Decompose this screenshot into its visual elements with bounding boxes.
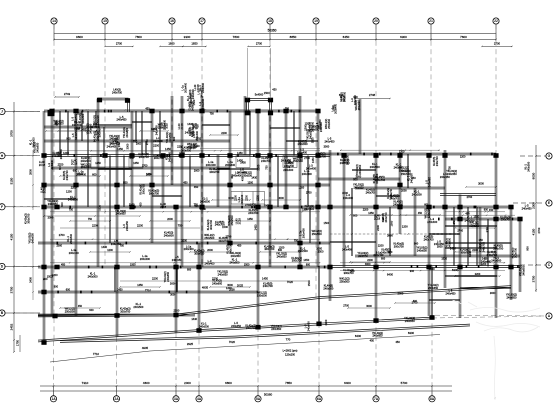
row dim line y=150.8 <box>60 150 320 152</box>
svg-text:3000: 3000 <box>264 203 270 207</box>
svg-text:6450: 6450 <box>343 35 350 39</box>
beam x=98 <box>97 111 99 267</box>
svg-text:240x600: 240x600 <box>304 207 315 211</box>
dim cell 1450 a <box>91 156 105 168</box>
svg-text:3700: 3700 <box>9 286 13 293</box>
annotation text cluster 29 <box>370 331 401 344</box>
beam y=292 <box>38 291 258 293</box>
svg-text:750: 750 <box>264 165 268 170</box>
svg-text:1200: 1200 <box>226 286 232 290</box>
beam x=460 <box>459 195 461 319</box>
beam x=511 <box>510 207 512 300</box>
svg-text:3700: 3700 <box>9 130 13 137</box>
svg-text:1500: 1500 <box>324 221 330 225</box>
partition beam y=122 <box>132 121 152 122</box>
beam y=219 <box>445 218 520 220</box>
annotation text cluster 32 <box>111 239 205 261</box>
svg-text:450: 450 <box>194 185 199 189</box>
dim cell 1450 c <box>236 156 250 168</box>
svg-text:2200: 2200 <box>177 144 183 148</box>
top sub-dim 2700 <box>482 45 512 47</box>
svg-text:600: 600 <box>194 204 199 208</box>
annotation text cluster 9 <box>138 152 171 177</box>
slanted dim line <box>50 351 150 362</box>
svg-text:750: 750 <box>210 112 215 115</box>
inner dim y=252 <box>190 251 230 253</box>
svg-text:1200: 1200 <box>247 181 253 184</box>
axis 17 tick line <box>201 24 203 41</box>
svg-text:2000: 2000 <box>207 249 213 252</box>
svg-text:450: 450 <box>395 340 400 344</box>
svg-text:300x700: 300x700 <box>292 259 303 263</box>
annotation text cluster 25 <box>65 302 180 313</box>
grid bubble bottom 5A <box>255 396 261 402</box>
svg-text:2000: 2000 <box>532 202 536 209</box>
beam x=480 <box>479 207 481 266</box>
svg-text:7800: 7800 <box>233 35 240 39</box>
beam x=415 <box>414 188 416 256</box>
partition beam x=294 <box>293 111 294 156</box>
svg-text:600: 600 <box>350 269 355 273</box>
svg-text:3000: 3000 <box>387 233 393 237</box>
dim tick <box>104 39 106 41</box>
beam x=163 <box>162 155 164 207</box>
grid line x=54 dashed <box>53 24 55 340</box>
svg-text:600: 600 <box>58 165 62 170</box>
svg-text:2000: 2000 <box>398 292 404 296</box>
svg-text:250x500: 250x500 <box>399 168 410 172</box>
svg-text:240x500: 240x500 <box>199 324 210 328</box>
svg-text:3000: 3000 <box>278 197 284 200</box>
svg-text:6800: 6800 <box>225 381 232 385</box>
svg-text:3000: 3000 <box>74 126 80 130</box>
dim tick <box>198 385 200 387</box>
grid bubble left F <box>0 204 5 210</box>
partition beam x=308 <box>307 156 308 208</box>
inner dim y=135 <box>210 134 238 136</box>
svg-text:2700: 2700 <box>245 203 251 207</box>
svg-text:6400: 6400 <box>387 273 394 277</box>
partition beam x=488 <box>487 219 488 267</box>
beam x=52 <box>51 111 53 316</box>
grid line x=105 dashed <box>104 24 106 266</box>
svg-text:200x400: 200x400 <box>76 173 87 177</box>
dense annotation cluster 6 <box>117 125 163 148</box>
svg-text:1500: 1500 <box>98 204 102 210</box>
svg-text:5700: 5700 <box>401 381 408 385</box>
svg-text:240x400: 240x400 <box>427 220 438 224</box>
grid bubble axis 20 top <box>373 18 379 24</box>
svg-text:240x650: 240x650 <box>354 186 365 190</box>
beam y=111 <box>44 110 318 112</box>
svg-text:240x500: 240x500 <box>69 233 73 244</box>
svg-text:240x650: 240x650 <box>277 254 288 258</box>
svg-text:240x700: 240x700 <box>487 253 498 257</box>
grid bubble left J <box>0 108 5 114</box>
svg-text:2000: 2000 <box>56 244 62 247</box>
grid bubble left H <box>0 153 5 159</box>
svg-text:3000: 3000 <box>146 173 152 177</box>
svg-text:750: 750 <box>133 139 138 143</box>
inner dim y=252 <box>260 251 300 253</box>
svg-text:2A: 2A <box>114 397 119 401</box>
svg-text:240x500: 240x500 <box>298 249 309 253</box>
svg-text:6400: 6400 <box>344 381 351 385</box>
svg-text:240x600: 240x600 <box>164 234 175 238</box>
svg-text:20: 20 <box>374 19 378 23</box>
grid bubble axis 21 top <box>428 18 434 24</box>
svg-text:6300: 6300 <box>408 331 415 335</box>
slant beam lower dashed ext <box>432 316 543 318</box>
svg-text:900: 900 <box>526 246 530 251</box>
svg-text:240x500: 240x500 <box>200 199 211 203</box>
svg-text:240x500: 240x500 <box>229 260 240 264</box>
svg-text:900: 900 <box>410 269 415 273</box>
left inner dim a <box>32 150 34 210</box>
dim tick <box>13 111 15 113</box>
svg-text:240x400: 240x400 <box>283 168 294 172</box>
svg-text:240x400: 240x400 <box>205 262 216 266</box>
svg-text:2700: 2700 <box>256 42 263 46</box>
partition beam x=68 <box>67 111 68 156</box>
axis 18 tick line <box>269 24 271 41</box>
svg-text:2000: 2000 <box>194 169 200 172</box>
svg-text:300x700: 300x700 <box>501 218 512 222</box>
grid bubble axis 16 top <box>169 18 175 24</box>
svg-text:750: 750 <box>447 166 451 171</box>
inner dim y=176 <box>60 175 100 177</box>
bottom tick line <box>175 386 177 396</box>
dim tick <box>431 385 433 387</box>
svg-text:240x450: 240x450 <box>342 248 353 252</box>
svg-text:2400: 2400 <box>29 277 33 283</box>
inner dim y=176 <box>130 175 168 177</box>
dim tick <box>13 312 15 314</box>
axis 20 tick line <box>375 24 377 41</box>
svg-text:240x450: 240x450 <box>231 324 242 328</box>
svg-text:5x4000: 5x4000 <box>255 92 264 96</box>
partition beam x=310 <box>309 207 310 243</box>
beam y=185 <box>44 184 330 186</box>
svg-text:2C18: 2C18 <box>238 218 242 225</box>
svg-text:3A: 3A <box>174 397 179 401</box>
dim tick <box>375 39 377 41</box>
svg-text:900: 900 <box>353 95 358 99</box>
left grid ext y=111.5 <box>16 111 40 113</box>
svg-text:200x400: 200x400 <box>163 119 167 130</box>
svg-text:3000: 3000 <box>490 291 496 295</box>
internal dim row y151 <box>90 150 200 152</box>
svg-text:4905: 4905 <box>202 286 209 290</box>
inner dim y=303 <box>395 302 435 304</box>
partition beam y=125 <box>202 124 230 125</box>
tab x247 columns <box>245 98 250 103</box>
svg-text:450: 450 <box>183 181 188 184</box>
annotation text cluster 21 <box>69 244 324 266</box>
svg-text:240x650: 240x650 <box>271 327 282 331</box>
svg-text:240x400: 240x400 <box>306 167 317 171</box>
partition beam x=177 <box>176 267 177 292</box>
svg-text:240x500: 240x500 <box>133 305 144 309</box>
axis 16 tick line <box>171 24 173 41</box>
dim 2743 <box>55 96 79 98</box>
svg-text:3000: 3000 <box>342 191 348 195</box>
partition beam x=278 <box>277 156 278 208</box>
annotation text cluster 8 <box>39 149 97 177</box>
svg-text:18: 18 <box>268 19 272 23</box>
partition beam x=60 <box>59 111 60 156</box>
svg-text:250x500: 250x500 <box>327 118 331 129</box>
inner dim y=252 <box>90 251 130 253</box>
svg-text:9600: 9600 <box>76 35 83 39</box>
svg-text:1200: 1200 <box>460 155 466 158</box>
partition beam x=82 <box>81 111 82 141</box>
svg-text:1500: 1500 <box>474 215 480 218</box>
row dim line y=239.2 <box>50 238 320 240</box>
watermark faint curves <box>452 300 540 400</box>
partition beam x=390 <box>389 207 390 256</box>
inner dim y=221 <box>230 220 270 222</box>
svg-text:240x450: 240x450 <box>111 242 122 246</box>
svg-text:3000: 3000 <box>228 197 234 200</box>
internal dim row y148 <box>200 148 320 150</box>
svg-text:200x400: 200x400 <box>240 194 244 205</box>
beam x=152 <box>151 111 153 243</box>
svg-text:240x650: 240x650 <box>110 137 121 141</box>
tab top x98 <box>97 99 99 112</box>
dim cell 1450 d <box>283 156 297 168</box>
svg-text:200x400: 200x400 <box>206 163 217 167</box>
beam x=286 <box>285 111 287 207</box>
grid line x=316 dashed <box>315 24 317 301</box>
svg-text:240x700: 240x700 <box>435 156 439 167</box>
partition beam y=169 <box>98 168 132 169</box>
dim cell 1450 b <box>129 156 143 168</box>
svg-text:3000: 3000 <box>170 293 176 296</box>
top sub-dim 1650 <box>183 45 206 47</box>
grid bubble axis 22 top <box>493 18 499 24</box>
svg-text:240x650: 240x650 <box>405 319 416 323</box>
svg-text:240x650: 240x650 <box>125 127 129 138</box>
svg-text:900: 900 <box>123 181 128 184</box>
dense annotation cluster 7 <box>342 208 430 258</box>
svg-text:1500: 1500 <box>244 263 250 266</box>
partition beam x=160 <box>159 111 160 156</box>
columns row y=267 <box>41 265 513 270</box>
svg-text:2200: 2200 <box>92 224 98 228</box>
partition beam y=276 <box>445 275 497 276</box>
svg-text:600: 600 <box>187 268 192 271</box>
svg-text:900: 900 <box>414 242 419 246</box>
svg-text:8850: 8850 <box>290 35 297 39</box>
svg-text:240x400: 240x400 <box>50 159 54 170</box>
svg-text:240x700: 240x700 <box>218 239 229 243</box>
beam y=168 <box>52 167 230 169</box>
bottom grid ext x=53.5 <box>53 341 55 395</box>
svg-text:450: 450 <box>418 212 423 215</box>
grid line x=202 dashed <box>201 24 203 266</box>
grid bubble axis 19 top <box>313 18 319 24</box>
top sub-dim 1600 <box>160 45 183 47</box>
svg-text:8A: 8A <box>430 397 435 401</box>
slant beam S3 bottom edge <box>60 336 235 342</box>
svg-text:1A: 1A <box>51 397 56 401</box>
svg-text:200x400: 200x400 <box>301 228 305 239</box>
svg-text:600: 600 <box>381 257 386 260</box>
svg-text:240x450: 240x450 <box>324 139 335 143</box>
svg-text:7020: 7020 <box>229 340 236 344</box>
svg-text:250x500: 250x500 <box>257 293 268 297</box>
dim tick <box>175 385 177 387</box>
svg-text:240x400: 240x400 <box>153 139 164 143</box>
grid line x=496 dashed <box>495 24 497 155</box>
dim tick <box>13 155 15 157</box>
dim tick <box>201 39 203 41</box>
svg-text:6A: 6A <box>317 397 322 401</box>
svg-text:4A: 4A <box>197 397 202 401</box>
corner column <box>48 110 55 116</box>
dim table 2200 cells <box>231 192 265 205</box>
partition beam x=190 <box>189 156 190 208</box>
partition beam y=243 <box>445 242 511 243</box>
svg-text:450: 450 <box>55 121 59 126</box>
svg-text:7800: 7800 <box>135 35 142 39</box>
svg-text:1600: 1600 <box>168 42 175 46</box>
beam x=429 <box>428 154 430 316</box>
svg-text:3000: 3000 <box>366 305 372 308</box>
annotation text cluster 2 <box>107 115 169 150</box>
svg-text:450: 450 <box>272 88 277 92</box>
svg-text:240x700: 240x700 <box>316 154 327 158</box>
partition beam y=170 <box>352 169 376 170</box>
dim tick <box>495 39 497 41</box>
svg-text:2700: 2700 <box>304 157 310 160</box>
svg-text:240x500: 240x500 <box>412 192 423 196</box>
svg-text:50360: 50360 <box>264 393 273 397</box>
svg-text:1430: 1430 <box>485 226 489 232</box>
axis 14 tick line <box>53 24 55 41</box>
partition beam x=319 <box>318 267 319 324</box>
grid bubble right C <box>546 262 552 268</box>
svg-text:450: 450 <box>370 338 375 342</box>
svg-text:2200: 2200 <box>367 259 373 262</box>
svg-text:7A: 7A <box>374 397 379 401</box>
svg-text:240x500: 240x500 <box>370 165 381 169</box>
dim tick <box>318 385 320 387</box>
svg-text:240x600: 240x600 <box>311 121 315 132</box>
grid bubble bottom 6A <box>316 396 322 402</box>
tab x98 columns <box>97 98 102 103</box>
right tick line <box>520 264 546 266</box>
beam x=496 <box>495 155 497 318</box>
annotation text cluster 12 <box>340 155 412 207</box>
annotation text cluster 7 <box>331 93 358 114</box>
svg-text:240x450: 240x450 <box>74 130 78 141</box>
columns lower slant <box>41 315 434 345</box>
svg-text:240x400: 240x400 <box>185 131 196 135</box>
bottom tick line <box>53 386 55 396</box>
annotation text cluster 16 <box>115 184 167 216</box>
inner dim y=308 <box>60 307 100 309</box>
svg-text:900: 900 <box>388 250 393 254</box>
svg-text:240x450: 240x450 <box>117 118 128 122</box>
svg-text:600: 600 <box>306 263 311 266</box>
annotation text cluster 27 <box>519 161 541 276</box>
beam x=76 <box>75 111 77 316</box>
svg-text:240x600: 240x600 <box>52 154 63 158</box>
svg-text:2700: 2700 <box>412 301 418 305</box>
partition beam x=146 <box>145 141 146 156</box>
svg-text:1500: 1500 <box>441 257 447 260</box>
svg-text:1450: 1450 <box>311 157 315 163</box>
beam x=258 <box>257 111 259 327</box>
annotation text cluster 30 <box>204 215 234 243</box>
svg-text:240x700: 240x700 <box>389 196 400 200</box>
svg-text:2200: 2200 <box>257 195 260 201</box>
partition beam x=142 <box>141 111 142 156</box>
dense annotation cluster 5 <box>457 215 511 264</box>
svg-text:1200: 1200 <box>402 225 408 229</box>
svg-text:2200: 2200 <box>52 273 58 277</box>
svg-text:1450: 1450 <box>95 162 101 165</box>
svg-text:200x400: 200x400 <box>225 163 236 167</box>
dense annotation cluster 11 <box>339 91 361 110</box>
dense annotation cluster 4 <box>353 162 422 200</box>
svg-text:240x700: 240x700 <box>228 244 232 255</box>
svg-text:1450: 1450 <box>133 162 139 165</box>
bottom grid ext x=176 <box>175 333 177 395</box>
svg-text:1450: 1450 <box>165 147 171 151</box>
beam x=132 <box>131 111 133 207</box>
inner dim y=215 <box>400 214 440 216</box>
svg-text:1200: 1200 <box>181 239 187 242</box>
svg-text:F: F <box>1 205 3 209</box>
svg-text:300x700: 300x700 <box>181 148 192 152</box>
beam x=245 <box>244 96 246 155</box>
svg-text:6300: 6300 <box>400 35 407 39</box>
svg-text:3300: 3300 <box>184 35 191 39</box>
annotation text cluster 10 <box>206 156 272 177</box>
svg-text:6400: 6400 <box>355 334 362 338</box>
svg-text:1500: 1500 <box>390 220 394 226</box>
svg-text:240x450: 240x450 <box>522 207 533 211</box>
svg-text:6300: 6300 <box>452 268 459 272</box>
svg-text:2025: 2025 <box>237 284 244 288</box>
svg-text:250x500: 250x500 <box>65 309 76 313</box>
beam x=376 <box>375 154 377 319</box>
svg-text:240x700: 240x700 <box>248 211 259 215</box>
svg-text:2700: 2700 <box>306 191 312 195</box>
svg-text:1500: 1500 <box>307 280 311 286</box>
bottom dimension line <box>40 385 452 387</box>
annotation text cluster 3 <box>165 123 200 150</box>
bottom grid ext x=258 <box>257 327 259 395</box>
inner dim y=131 <box>58 130 96 132</box>
svg-text:1450: 1450 <box>254 224 258 230</box>
svg-text:7600: 7600 <box>460 35 467 39</box>
beam y=256 <box>355 255 520 257</box>
partition beam y=196 <box>152 195 182 196</box>
beam stub marks <box>57 110 519 294</box>
svg-text:2200: 2200 <box>152 277 158 281</box>
svg-text:14: 14 <box>52 19 56 23</box>
svg-text:250x500: 250x500 <box>340 279 351 283</box>
partition beam x=136 <box>135 111 136 141</box>
dim tick <box>430 39 432 41</box>
svg-text:240x600: 240x600 <box>81 159 92 163</box>
grid bubble bottom 1A <box>50 396 56 402</box>
svg-text:16: 16 <box>170 19 174 23</box>
